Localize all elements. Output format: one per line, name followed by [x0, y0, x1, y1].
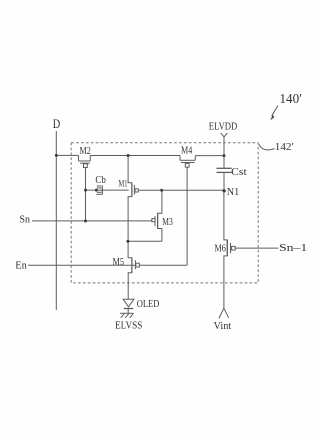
wire M4 gate down to En row [186, 167, 188, 265]
svg-text:142′: 142′ [275, 141, 294, 153]
svg-text:Cst: Cst [231, 167, 247, 178]
svg-text:M5: M5 [113, 257, 125, 268]
svg-text:En: En [15, 259, 27, 271]
node D/top-rail junction [55, 154, 58, 157]
node M1 drain junction [127, 154, 130, 157]
arrow leader for 140' [272, 106, 278, 117]
wire gate row y=190 [86, 189, 129, 191]
node N1 junction [222, 189, 225, 192]
wire M3 bottom to M1 source [128, 240, 162, 242]
wire Cst to N1 [223, 172, 225, 191]
svg-text:Vint: Vint [214, 320, 232, 332]
node Sn/M2 junction [84, 220, 87, 223]
svg-text:Cb: Cb [95, 175, 105, 186]
svg-text:140′: 140′ [280, 91, 303, 106]
svg-text:OLED: OLED [137, 299, 160, 310]
wire M6 gate to Sn-1 [235, 247, 278, 249]
power symbol Vint arrow [219, 308, 229, 318]
node Cb junction [95, 189, 98, 192]
svg-text:ELVSS: ELVSS [115, 321, 143, 332]
svg-text:M6: M6 [215, 243, 226, 254]
node M3 top junction [160, 189, 163, 192]
leader squiggle for 142' [259, 144, 275, 150]
ground ELVSS [120, 312, 134, 314]
junction dots [55, 154, 226, 243]
wire ELVDD vertical to top rail [223, 137, 225, 168]
svg-text:N1: N1 [227, 187, 240, 198]
svg-text:M3: M3 [162, 217, 173, 228]
wire Sn row [32, 220, 152, 222]
wire M2 gate down to Sn [85, 168, 87, 222]
svg-text:ELVDD: ELVDD [209, 121, 238, 133]
node M2 gate row junction [84, 189, 87, 192]
svg-text:M2: M2 [80, 146, 91, 157]
wire En row [28, 264, 136, 266]
wire top rail row y=155.5 [56, 154, 78, 156]
wire data line D vertical [55, 131, 57, 310]
dashed box 142' [71, 143, 258, 283]
node M1/M3/M5 junction [126, 240, 129, 243]
svg-text:M1: M1 [119, 179, 128, 189]
svg-text:D: D [53, 116, 61, 131]
svg-text:M4: M4 [181, 145, 192, 156]
power symbol ELVDD [221, 133, 228, 137]
node ELVDD junction [223, 154, 226, 157]
svg-text:Sn: Sn [20, 214, 31, 226]
svg-text:Sn–1: Sn–1 [279, 242, 307, 254]
